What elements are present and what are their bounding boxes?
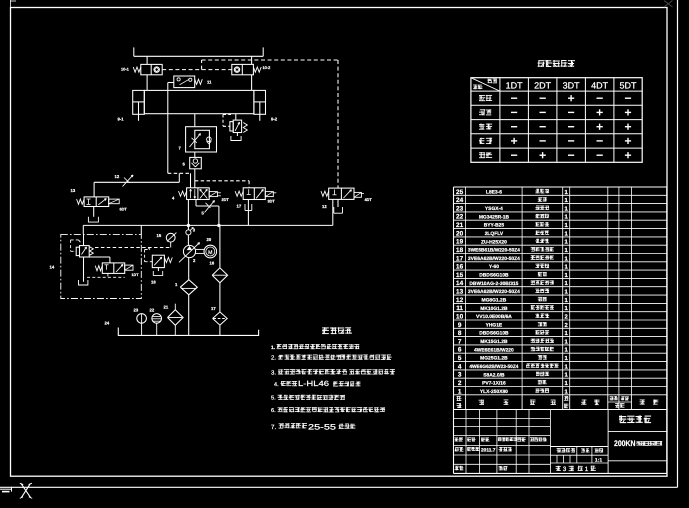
svg-text:MG8G1.2B: MG8G1.2B <box>482 298 507 304</box>
solenoid valve 4 <box>172 188 229 202</box>
wire valve 4 to pump via check 3 <box>187 200 189 230</box>
svg-text:1.: 1. <box>271 345 276 351</box>
svg-text:9-1: 9-1 <box>118 117 125 122</box>
svg-text:1: 1 <box>585 466 589 473</box>
action sequence table <box>471 78 642 163</box>
svg-text:9-2: 9-2 <box>271 117 278 122</box>
svg-text:25: 25 <box>456 189 464 196</box>
svg-text:10: 10 <box>456 314 464 321</box>
wire rail to valve 10-2 <box>251 56 253 64</box>
svg-text:17: 17 <box>211 306 216 311</box>
svg-text:13: 13 <box>71 188 76 193</box>
svg-text:1DT: 1DT <box>506 80 524 90</box>
wire valve 6 to valve 4 <box>194 169 196 188</box>
svg-text:DBDS6G10B: DBDS6G10B <box>479 331 509 337</box>
svg-text:18: 18 <box>151 280 156 285</box>
relief valve group 14 boundary <box>50 234 142 298</box>
throttle valve 12 <box>115 174 134 187</box>
oil tank 24 <box>105 321 259 336</box>
svg-text:10-1: 10-1 <box>121 67 130 72</box>
svg-text:3: 3 <box>458 372 462 379</box>
wire valve 7 to check valve 6 <box>194 152 196 157</box>
pilot line between 10-1 and 10-2 <box>162 69 232 71</box>
svg-text:14: 14 <box>50 265 55 270</box>
svg-text:2DT: 2DT <box>534 80 552 90</box>
pilot check valve 10-1 <box>121 64 162 74</box>
svg-text:12: 12 <box>322 204 327 209</box>
svg-text:6DT: 6DT <box>120 208 128 212</box>
svg-text:21: 21 <box>456 222 464 229</box>
technical requirements lines <box>271 344 395 431</box>
parts list header row <box>457 396 659 408</box>
check valve 3 <box>186 227 196 245</box>
svg-text:VV10.0E00B/6A: VV10.0E00B/6A <box>476 314 512 320</box>
motor 20 <box>204 237 217 258</box>
svg-text:1DT: 1DT <box>132 273 140 277</box>
svg-text:5DT: 5DT <box>619 80 637 90</box>
svg-text:22: 22 <box>456 214 464 221</box>
pilot relief valve 14a <box>71 234 110 285</box>
svg-text:4WE6G62B/W23-50Z4: 4WE6G62B/W23-50Z4 <box>469 364 518 370</box>
pilot wire to valve 4 <box>168 173 191 188</box>
wire rail to valve 10-1 <box>146 56 148 64</box>
svg-text:MK15G1.2B: MK15G1.2B <box>480 339 508 345</box>
svg-text:8: 8 <box>458 330 462 337</box>
svg-text:4: 4 <box>458 363 462 370</box>
pressure gauge 15 <box>157 233 177 248</box>
wire 10-2 to cylinder <box>251 75 253 91</box>
svg-text:6.: 6. <box>271 408 276 414</box>
svg-text:17: 17 <box>456 255 464 262</box>
svg-text:11: 11 <box>207 79 212 84</box>
svg-text:7: 7 <box>458 338 462 345</box>
svg-text:15: 15 <box>456 272 464 279</box>
solenoid relief valve 14b <box>87 263 139 277</box>
main return line <box>83 224 332 227</box>
svg-text:Y-60: Y-60 <box>489 264 499 270</box>
svg-text:M: M <box>208 250 212 256</box>
svg-text:MG25G1.2B: MG25G1.2B <box>480 356 508 362</box>
svg-text:200KN: 200KN <box>614 439 636 448</box>
svg-text:23: 23 <box>134 308 139 313</box>
svg-text:25-55: 25-55 <box>308 422 337 431</box>
relief valve 8 <box>223 114 247 141</box>
UCS icon cross <box>20 483 32 498</box>
svg-text:24: 24 <box>105 321 110 326</box>
svg-text:14: 14 <box>456 280 464 287</box>
filter 21 <box>164 304 184 336</box>
check valve 6 <box>183 157 202 168</box>
svg-text:L-HL46: L-HL46 <box>298 379 329 388</box>
svg-text:16: 16 <box>210 261 215 266</box>
svg-text:17: 17 <box>237 204 242 209</box>
svg-text:2.: 2. <box>271 355 276 362</box>
svg-text:3VE6A62B/W220-50Z4: 3VE6A62B/W220-50Z4 <box>468 289 520 295</box>
svg-text:20: 20 <box>456 230 464 237</box>
wire main line to filter 16 <box>219 225 221 267</box>
level gauge 23 <box>134 308 147 336</box>
svg-text:YLX-250X80: YLX-250X80 <box>480 389 508 395</box>
filter 1 <box>175 280 197 336</box>
svg-text:MK10G1.2B: MK10G1.2B <box>480 306 508 312</box>
svg-text:4.: 4. <box>274 382 279 388</box>
svg-text:6: 6 <box>458 347 462 354</box>
wire main line to relief group <box>82 225 84 234</box>
variable pump 2 <box>179 243 200 263</box>
parts list rows <box>456 189 569 395</box>
svg-text:DBDS6G10B: DBDS6G10B <box>479 273 509 279</box>
svg-text:7.: 7. <box>271 424 276 431</box>
svg-text:10-2: 10-2 <box>263 65 272 70</box>
svg-text:1: 1 <box>458 388 462 395</box>
cylinder 9-2 <box>254 90 278 121</box>
svg-text:3.: 3. <box>271 369 276 376</box>
svg-text:2011.7: 2011.7 <box>481 448 496 454</box>
solenoid valve 12b <box>321 188 372 225</box>
svg-text:12: 12 <box>456 297 464 304</box>
svg-text:3VE6A62B/W220-50Z4: 3VE6A62B/W220-50Z4 <box>468 256 520 262</box>
svg-text:13: 13 <box>456 289 464 296</box>
cooler 16 <box>210 261 228 312</box>
svg-text:19: 19 <box>456 239 464 246</box>
svg-text:9: 9 <box>458 322 462 329</box>
svg-text:YSGX-4: YSGX-4 <box>485 206 503 212</box>
svg-text:4WE6E61B/W220: 4WE6E61B/W220 <box>474 347 514 353</box>
title block revision texts <box>455 437 547 470</box>
svg-text:23: 23 <box>456 205 464 212</box>
solenoid valve 17 <box>235 188 276 226</box>
svg-text:S8A2.0/B: S8A2.0/B <box>483 372 505 378</box>
svg-text:2: 2 <box>458 380 462 387</box>
svg-text:3DT: 3DT <box>563 80 581 90</box>
parts list table <box>454 187 667 410</box>
fixed platen rail <box>134 47 263 56</box>
svg-text:ZU-H25X20: ZU-H25X20 <box>481 239 507 245</box>
wire beam to flow valve 7 <box>194 114 196 127</box>
pump-motor shaft <box>196 249 204 253</box>
pilot line to gauge <box>95 247 171 249</box>
svg-text:22: 22 <box>150 308 155 313</box>
svg-text:PV7-1X/16: PV7-1X/16 <box>482 381 506 387</box>
svg-text:16: 16 <box>456 264 464 271</box>
pilot wire to valve 17 <box>195 181 249 188</box>
svg-text:3DT: 3DT <box>268 199 276 203</box>
pilot line to valve 12 solenoid branch <box>202 60 338 188</box>
drawing title 200KN <box>614 439 662 448</box>
throttle valve 12 line <box>94 173 179 197</box>
svg-text:4DT: 4DT <box>591 80 609 90</box>
svg-text:15: 15 <box>157 233 162 238</box>
svg-text:5: 5 <box>458 355 462 362</box>
sequence valve 18 <box>145 248 173 285</box>
throttle valve 5 <box>196 200 219 226</box>
svg-text:5.: 5. <box>271 396 276 402</box>
UCS icon arrow <box>0 487 12 492</box>
svg-text:L8E3-6: L8E3-6 <box>486 189 502 195</box>
wire 10-1 to cylinder <box>146 75 148 91</box>
svg-text:12: 12 <box>115 174 120 179</box>
svg-text:MG3425R-1B: MG3425R-1B <box>479 214 510 220</box>
wire main line down right edge of group <box>140 225 142 234</box>
flow control valve 7 <box>179 127 217 152</box>
action sequence table title <box>538 60 575 67</box>
wire valve 11 to lower circuit <box>168 83 174 174</box>
svg-text:4DT: 4DT <box>365 198 373 202</box>
svg-text:20: 20 <box>207 237 212 242</box>
title block middle texts <box>556 448 604 473</box>
svg-text:BYY-B25: BYY-B25 <box>484 223 505 229</box>
technical requirements title <box>322 327 352 334</box>
pilot check valve 10-2 <box>232 64 271 74</box>
moving beam <box>144 90 254 113</box>
pilot valve 11 <box>174 76 212 88</box>
svg-text:11: 11 <box>456 305 463 312</box>
svg-text:1:1: 1:1 <box>595 458 602 464</box>
university name <box>619 416 651 423</box>
svg-text:3WE6B61B/W220-50Z4: 3WE6B61B/W220-50Z4 <box>468 248 520 254</box>
svg-text:DBW10AG-2-30B/315: DBW10AG-2-30B/315 <box>469 281 518 287</box>
thermometer 22 <box>150 308 162 336</box>
title block grid <box>454 410 667 474</box>
svg-text:YHG1E: YHG1E <box>486 322 503 328</box>
svg-text:3: 3 <box>563 466 567 473</box>
svg-text:2LQFLV: 2LQFLV <box>485 231 504 237</box>
svg-text:18: 18 <box>456 247 464 254</box>
svg-text:2DT: 2DT <box>222 198 230 202</box>
wire pump suction to filter 1 <box>188 258 190 280</box>
solenoid valve 13 <box>71 188 128 222</box>
svg-text:21: 21 <box>164 305 169 310</box>
svg-text:24: 24 <box>456 197 464 204</box>
cylinder 9-1 <box>118 90 145 121</box>
filter 17b <box>211 306 227 335</box>
